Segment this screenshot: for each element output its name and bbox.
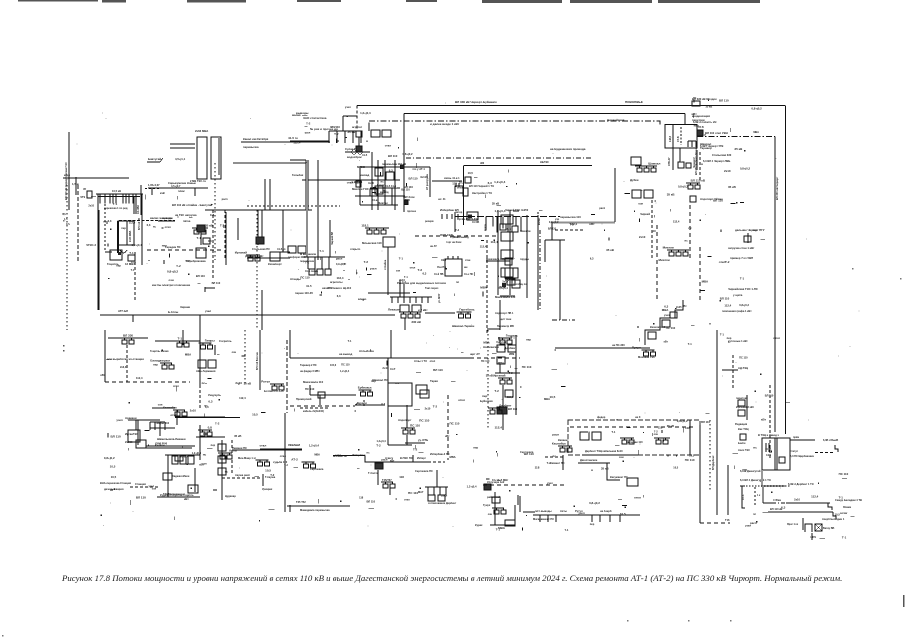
bus Mamedkala bbox=[287, 505, 350, 507]
bus Irganay bbox=[128, 419, 160, 421]
svg-text:Ирганай: Ирганай bbox=[493, 374, 505, 378]
stub bbox=[729, 128, 731, 132]
substation Novaya tick bbox=[383, 228, 385, 230]
transformer thick edge bbox=[117, 221, 119, 253]
stub bbox=[733, 465, 735, 469]
stub bbox=[255, 476, 259, 478]
cell bbox=[298, 246, 306, 253]
line step bbox=[365, 456, 398, 463]
stub bbox=[242, 355, 246, 357]
column cell bbox=[218, 444, 226, 451]
svg-text:пс: пс bbox=[684, 239, 688, 242]
wire bbox=[514, 505, 516, 525]
svg-text:пс: пс bbox=[204, 403, 208, 407]
svg-text:кВт: кВт bbox=[664, 341, 669, 344]
svg-text:Сергокала: Сергокала bbox=[310, 467, 324, 471]
stub bbox=[320, 294, 322, 296]
svg-text:ПС 110: ПС 110 bbox=[839, 472, 849, 476]
stub bbox=[461, 351, 464, 353]
substation Levashi2 cell bbox=[227, 455, 232, 459]
scan speck bbox=[859, 310, 860, 311]
scan speck bbox=[615, 315, 616, 316]
substation Belidzhi tick bbox=[665, 438, 667, 440]
svg-text:118: 118 bbox=[399, 475, 404, 479]
scan speck bbox=[480, 162, 481, 163]
svg-text:расп: расп bbox=[164, 359, 171, 362]
wire bbox=[559, 240, 561, 320]
scan speck bbox=[368, 526, 369, 527]
svg-text:Тарнаир 2 ПС: Тарнаир 2 ПС bbox=[300, 364, 317, 367]
svg-text:Станция: Станция bbox=[135, 482, 146, 486]
substation Botlikh bus bbox=[270, 383, 284, 385]
stub bbox=[403, 166, 405, 169]
svg-text:на Буденновск провода: на Буденновск провода bbox=[550, 147, 586, 151]
scan speck bbox=[248, 200, 249, 201]
substation bus bbox=[256, 459, 269, 461]
stub bbox=[700, 289, 705, 291]
cell bbox=[356, 131, 362, 137]
svg-text:Турали: Турали bbox=[357, 401, 367, 405]
svg-text:ВЛ 110 откл УВН: ВЛ 110 откл УВН bbox=[705, 131, 728, 135]
wire dashed bbox=[545, 456, 565, 458]
bus mid bbox=[302, 179, 400, 181]
wire bbox=[231, 440, 233, 475]
svg-text:прочее: прочее bbox=[407, 210, 417, 213]
svg-text:112,4: 112,4 bbox=[337, 276, 344, 280]
substation Kizilyurt-2 cell bbox=[408, 314, 413, 318]
svg-text:АТ разгрузка: АТ разгрузка bbox=[426, 174, 429, 190]
stub bbox=[415, 163, 417, 168]
substation Kayakent tick bbox=[562, 446, 564, 448]
bay tick bbox=[591, 515, 593, 522]
stub bbox=[453, 294, 455, 296]
stub bbox=[204, 413, 206, 417]
line dashed bbox=[470, 357, 520, 359]
dark cell bbox=[697, 130, 703, 136]
inner tick bbox=[765, 443, 767, 452]
stub bbox=[455, 183, 457, 187]
box edge left bbox=[305, 160, 307, 210]
grey drop long bbox=[306, 163, 308, 257]
svg-text:Сергокала ПС: Сергокала ПС bbox=[415, 469, 433, 473]
wire bbox=[499, 300, 501, 330]
svg-text:агрегаты: агрегаты bbox=[330, 280, 343, 284]
substation tick bbox=[624, 438, 626, 440]
svg-text:Т-1: Т-1 bbox=[720, 332, 725, 336]
svg-text:кВт: кВт bbox=[682, 304, 687, 308]
junction dot bbox=[728, 341, 729, 342]
svg-text:кВт: кВт bbox=[199, 462, 204, 466]
svg-text:Гимры: Гимры bbox=[205, 339, 216, 343]
wire bbox=[247, 257, 290, 259]
cell Gergebil south bbox=[188, 485, 198, 493]
substation Airport tick bbox=[412, 428, 414, 430]
junction dot bbox=[675, 308, 676, 309]
bay bbox=[427, 487, 429, 495]
stub bbox=[293, 467, 298, 469]
svg-text:41-5: 41-5 bbox=[362, 153, 368, 157]
wire bbox=[145, 188, 160, 190]
wire dashdot bbox=[256, 210, 258, 330]
stub bbox=[708, 256, 712, 258]
stub bbox=[539, 210, 543, 212]
substation Sergokala cell bbox=[304, 464, 309, 468]
stub bbox=[661, 430, 663, 433]
svg-text:1,2+j0,4: 1,2+j0,4 bbox=[377, 440, 387, 443]
wire bbox=[486, 260, 510, 262]
bays 110 center bay bbox=[344, 131, 346, 143]
scan speck bbox=[450, 331, 451, 332]
stub bbox=[651, 433, 653, 436]
scan speck bbox=[285, 144, 286, 145]
junction dot bbox=[356, 404, 357, 405]
svg-text:озн: озн bbox=[638, 202, 643, 206]
wire bbox=[746, 395, 748, 420]
wire bbox=[689, 420, 691, 455]
svg-text:Мин.Маар 1 кг: Мин.Маар 1 кг bbox=[238, 456, 257, 460]
substation Chiryurt 330 enclosure bbox=[665, 125, 697, 149]
wire bbox=[432, 180, 462, 182]
svg-text:1,2+j0,4: 1,2+j0,4 bbox=[494, 180, 505, 184]
junction dot bbox=[760, 374, 761, 375]
substation tick bbox=[266, 460, 268, 462]
svg-text:пер: пер bbox=[482, 394, 487, 398]
speck bbox=[63, 345, 64, 346]
substation Kayakent bus bbox=[558, 445, 572, 447]
svg-text:пс: пс bbox=[367, 451, 371, 454]
svg-text:Т-2: Т-2 bbox=[220, 224, 225, 228]
substation cell bbox=[255, 257, 260, 261]
junction dot bbox=[771, 492, 772, 493]
svg-text:1,2+j0,4: 1,2+j0,4 bbox=[360, 111, 371, 115]
svg-text:МВА: МВА bbox=[449, 455, 455, 459]
svg-text:кэВ: кэВ bbox=[160, 191, 165, 195]
svg-text:35 кВ: 35 кВ bbox=[234, 434, 241, 438]
line 330 south bbox=[716, 330, 718, 515]
svg-text:ВЛ 110 Ботлих: ВЛ 110 Ботлих bbox=[256, 352, 259, 370]
inner bay bbox=[776, 438, 778, 470]
svg-text:Махачкала 110: Махачкала 110 bbox=[303, 380, 324, 384]
stub bbox=[521, 528, 523, 531]
wire bbox=[194, 468, 196, 492]
wire bbox=[257, 210, 259, 245]
cell bbox=[505, 258, 512, 265]
svg-text:ПС 110: ПС 110 bbox=[179, 454, 189, 458]
dark cell 41-5 bbox=[197, 225, 205, 232]
svg-text:т.469: т.469 bbox=[810, 536, 816, 539]
wire bbox=[214, 345, 216, 355]
substation Belidzhi tick bbox=[658, 438, 660, 440]
svg-text:ВЛ 110: ВЛ 110 bbox=[196, 274, 205, 278]
substation Dubki cell bbox=[651, 168, 656, 172]
substation Sergokala cell bbox=[311, 464, 316, 468]
notch cell bbox=[87, 191, 92, 198]
figure caption bbox=[62, 573, 862, 583]
svg-text:Чиркейская: Чиркейская bbox=[607, 118, 625, 122]
svg-text:вся выработка эл-станции: вся выработка эл-станции bbox=[107, 357, 144, 361]
stub bbox=[819, 538, 825, 540]
svg-text:Стальская 330: Стальская 330 bbox=[712, 153, 732, 157]
wire bbox=[141, 194, 143, 265]
substation Botlikh cell bbox=[272, 386, 277, 390]
junction dot bbox=[720, 300, 721, 301]
dark cell bbox=[356, 146, 362, 152]
svg-text:Аэропорт ПБ 1: Аэропорт ПБ 1 bbox=[495, 312, 514, 315]
frame right vertical outer bbox=[785, 106, 787, 434]
svg-text:откл: откл bbox=[385, 143, 391, 147]
wire bbox=[199, 385, 201, 410]
svg-text:10+17+5 МВт: 10+17+5 МВт bbox=[492, 478, 509, 482]
wire bbox=[360, 204, 398, 206]
substation Makhachkala330 tick bbox=[685, 250, 687, 252]
svg-text:35 кВ: 35 кВ bbox=[499, 286, 506, 289]
svg-text:открыто: открыто bbox=[350, 248, 361, 251]
svg-text:10,5: 10,5 bbox=[111, 475, 117, 479]
grey feeder in T bbox=[218, 137, 220, 175]
wire bbox=[682, 300, 684, 310]
wire dashed bbox=[555, 229, 585, 231]
bays Irganay bay bbox=[159, 422, 161, 430]
substation Mokhovaya tick bbox=[652, 350, 654, 352]
substation mid-left tick bbox=[203, 228, 205, 230]
stub bbox=[622, 504, 627, 506]
svg-text:Зирани: Зирани bbox=[180, 305, 190, 309]
cell bbox=[370, 189, 377, 196]
cell bbox=[497, 357, 505, 364]
substation cell bbox=[390, 484, 395, 488]
svg-text:Кизилюрт: Кизилюрт bbox=[268, 262, 282, 266]
scan speck bbox=[736, 362, 737, 363]
svg-text:откл: откл bbox=[458, 398, 465, 402]
svg-text:узел: узел bbox=[547, 482, 553, 485]
cell bbox=[627, 478, 638, 486]
stub bbox=[321, 291, 323, 293]
wire bbox=[282, 210, 284, 252]
stub bbox=[163, 260, 165, 264]
svg-text:Приморский: Приморский bbox=[296, 398, 312, 401]
wire bbox=[237, 218, 239, 240]
svg-text:пер: пер bbox=[211, 444, 216, 447]
svg-text:4х16: 4х16 bbox=[368, 181, 374, 185]
scan speck bbox=[471, 324, 472, 325]
substation Shamilkala tick bbox=[202, 430, 204, 432]
bays under bus bus bbox=[308, 256, 329, 258]
wire step bbox=[828, 503, 832, 510]
substation Gunib tick bbox=[202, 343, 204, 345]
cell bbox=[416, 385, 427, 394]
svg-text:Лчи ПБ: Лчи ПБ bbox=[437, 266, 446, 269]
svg-text:МВА: МВА bbox=[335, 454, 341, 458]
svg-text:Бавтугай: Бавтугай bbox=[148, 157, 161, 161]
substation Dubki tick bbox=[653, 166, 655, 168]
svg-text:федер: федер bbox=[597, 415, 606, 419]
svg-text:пс: пс bbox=[456, 281, 460, 284]
svg-text:Миатли ГЭС: Миатли ГЭС bbox=[352, 187, 369, 191]
generator bay bbox=[520, 217, 522, 231]
svg-text:10,5: 10,5 bbox=[620, 512, 626, 516]
tick bbox=[698, 130, 700, 133]
svg-text:Т-2: Т-2 bbox=[306, 121, 311, 125]
generator bay bbox=[492, 217, 494, 227]
svg-text:41-5: 41-5 bbox=[306, 284, 312, 288]
stub bbox=[416, 372, 421, 374]
stub bbox=[561, 386, 566, 388]
wire bbox=[502, 385, 504, 430]
svg-text:Т-2: Т-2 bbox=[654, 431, 658, 434]
svg-text:ВЛ 110: ВЛ 110 bbox=[719, 99, 729, 103]
svg-text:стрелка вывод: стрелка вывод bbox=[450, 236, 469, 239]
substation Novaya cell bbox=[374, 230, 379, 234]
stub bbox=[461, 264, 463, 269]
stub bbox=[643, 495, 645, 498]
svg-text:ВЛ 110: ВЛ 110 bbox=[524, 452, 534, 456]
substation Gergebil north bus bbox=[175, 340, 187, 342]
svg-text:0,8+j0,2: 0,8+j0,2 bbox=[678, 185, 688, 189]
svg-text:112,4: 112,4 bbox=[673, 219, 680, 223]
junction dot bbox=[363, 299, 364, 300]
svg-text:6,3: 6,3 bbox=[208, 400, 212, 404]
wire bbox=[405, 442, 425, 444]
svg-text:0,8: 0,8 bbox=[208, 426, 213, 430]
stub bbox=[207, 447, 213, 449]
svg-text:ВЛ 110 кВ: ВЛ 110 кВ bbox=[138, 218, 141, 230]
substation X tick bbox=[467, 312, 469, 314]
bay tick bbox=[599, 515, 601, 522]
substation bus bbox=[381, 481, 393, 483]
svg-text:ВЛ 110: ВЛ 110 bbox=[409, 177, 418, 181]
wire bbox=[359, 167, 361, 205]
svg-text:ПС 110: ПС 110 bbox=[481, 360, 490, 363]
stub bbox=[707, 104, 712, 106]
bay tick bbox=[609, 515, 611, 522]
scan speck bbox=[239, 468, 240, 469]
wire bbox=[137, 420, 139, 445]
scan speck bbox=[601, 224, 602, 225]
junction dot bbox=[625, 507, 626, 508]
junction dot bbox=[708, 100, 709, 101]
wire bbox=[494, 492, 496, 525]
wire pair dark bbox=[399, 280, 401, 297]
svg-text:6,3: 6,3 bbox=[108, 219, 112, 223]
svg-text:на вывод: на вывод bbox=[339, 352, 352, 356]
svg-text:0,8+j0,2: 0,8+j0,2 bbox=[740, 166, 750, 170]
bays under bus bay bbox=[307, 257, 309, 269]
svg-text:ПС 110: ПС 110 bbox=[410, 424, 420, 428]
junction dot bbox=[655, 200, 656, 201]
wire bbox=[447, 395, 449, 460]
svg-text:уу. ИТБ: уу. ИТБ bbox=[418, 438, 428, 442]
cell Serebryakovka bbox=[196, 248, 206, 258]
svg-text:ПС 110: ПС 110 bbox=[522, 365, 532, 369]
wire bbox=[150, 427, 175, 429]
stub bbox=[637, 326, 639, 328]
bay tick bbox=[547, 515, 549, 522]
bay CHGES bbox=[132, 194, 134, 204]
wire bbox=[167, 455, 169, 497]
substation cell bbox=[265, 462, 270, 466]
wire bbox=[754, 487, 756, 505]
Chiryurt inner bay bbox=[672, 125, 674, 149]
wire bbox=[551, 222, 553, 240]
svg-text:на Азерб: на Азерб bbox=[600, 509, 612, 513]
stub bbox=[269, 509, 275, 511]
wire bbox=[763, 502, 772, 504]
bay tick bbox=[619, 515, 621, 522]
svg-text:зигзаг: зигзаг bbox=[840, 512, 847, 515]
substation tick bbox=[259, 460, 261, 462]
bus bbox=[165, 454, 200, 456]
svg-text:41-5 схема: 41-5 схема bbox=[305, 270, 319, 273]
svg-text:Такт-переч: Такт-переч bbox=[425, 287, 439, 290]
stub bbox=[372, 191, 376, 193]
substation cell bbox=[501, 510, 506, 514]
svg-text:перемычка: перемычка bbox=[243, 145, 259, 149]
wire long dashed bbox=[147, 249, 223, 251]
substation mid-left bus bbox=[192, 227, 208, 229]
cell bbox=[203, 238, 210, 244]
cell bbox=[505, 390, 513, 397]
svg-text:озн: озн bbox=[488, 513, 493, 516]
substation Gunib tick bbox=[209, 343, 211, 345]
wire bbox=[811, 533, 813, 540]
svg-text:112,4: 112,4 bbox=[724, 303, 731, 307]
svg-text:Чиркей ВЛ: Чиркей ВЛ bbox=[331, 232, 334, 245]
svg-text:Настройка 1 ТЭ: Настройка 1 ТЭ bbox=[472, 191, 492, 195]
svg-text:пс: пс bbox=[688, 226, 692, 230]
generator G2 bbox=[358, 150, 362, 154]
wire bbox=[387, 247, 389, 295]
bay CHGES bbox=[128, 194, 130, 204]
svg-text:каскад: каскад bbox=[360, 173, 369, 177]
line bbox=[175, 416, 225, 418]
cell bbox=[744, 236, 751, 242]
cell bbox=[507, 278, 515, 285]
svg-text:ВЛ 110: ВЛ 110 bbox=[401, 187, 410, 191]
wire dashdot bbox=[552, 319, 575, 321]
svg-text:6,3: 6,3 bbox=[781, 505, 786, 509]
svg-text:АВБ-Германия: АВБ-Германия bbox=[196, 369, 216, 373]
svg-text:ПС 110: ПС 110 bbox=[450, 421, 460, 425]
svg-text:Т-1: Т-1 bbox=[113, 202, 118, 206]
svg-text:0,8+j0,2: 0,8+j0,2 bbox=[739, 303, 749, 307]
svg-text:расп: расп bbox=[599, 207, 605, 210]
wire bbox=[429, 167, 431, 197]
stub bbox=[367, 273, 371, 275]
svg-text:АД-ТЭЦ: АД-ТЭЦ bbox=[738, 366, 748, 370]
stub bbox=[189, 216, 192, 218]
svg-text:Багау ВВ: Багау ВВ bbox=[823, 527, 835, 530]
junction dot bbox=[205, 383, 206, 384]
svg-text:Дербент: Дербент bbox=[504, 346, 517, 350]
substation Dubki tick bbox=[639, 166, 641, 168]
svg-text:ВЛ 330: ВЛ 330 bbox=[123, 334, 133, 338]
substation tick bbox=[503, 508, 505, 510]
svg-text:косой: косой bbox=[538, 218, 541, 225]
substation Shamilkala cell bbox=[200, 432, 205, 436]
substation Tlokh cell bbox=[129, 340, 134, 344]
column cell bbox=[218, 468, 226, 475]
svg-text:на Х: на Х bbox=[635, 415, 641, 419]
substation tick bbox=[499, 408, 501, 410]
svg-text:Т-1: Т-1 bbox=[131, 268, 135, 272]
wire bbox=[519, 496, 521, 512]
substation Makhachkala330 cell bbox=[669, 252, 674, 256]
wire bbox=[329, 220, 331, 257]
scan speck bbox=[176, 214, 177, 215]
stub bbox=[91, 195, 96, 197]
junction dot bbox=[110, 229, 111, 230]
cell X bbox=[815, 524, 822, 531]
